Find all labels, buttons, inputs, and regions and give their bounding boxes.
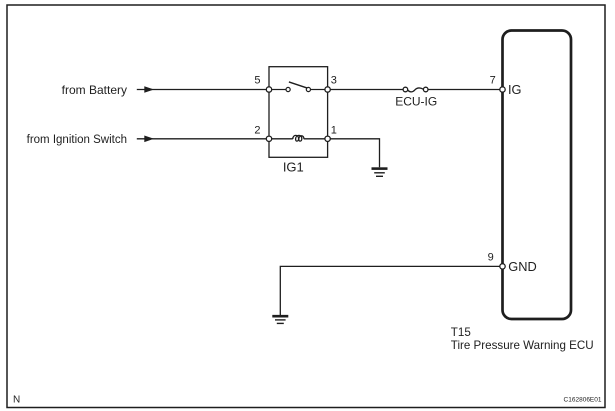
svg-text:IG: IG [508,82,522,97]
svg-text:T15: T15 [451,326,471,339]
svg-text:from Battery: from Battery [62,83,127,97]
relay pin 3 terminal [325,87,330,92]
relay pin 5 terminal [266,87,271,92]
wire: from Battery feed with arrow to relay pin 5 [137,86,266,93]
svg-text:GND: GND [508,259,536,274]
ground G1 [372,169,388,177]
relay switch contact circles (pins 5-3) [272,87,326,91]
ECU connector T15 body [503,31,572,320]
relay pin 2 terminal [266,136,271,141]
svg-text:ECU-IG: ECU-IG [395,94,437,108]
wire: relay pin 3 to fuse ECU-IG [330,89,403,91]
relay coil (pins 2-1) [272,135,326,141]
relay switch blade [289,82,307,88]
relay IG1 body [269,67,328,158]
svg-text:C162806E01: C162806E01 [564,397,602,404]
ECU pin 9 terminal [500,264,505,269]
ECU pin 7 terminal [500,87,505,92]
fuse ECU-IG [403,87,428,92]
svg-text:5: 5 [254,75,260,87]
svg-text:from Ignition Switch: from Ignition Switch [27,134,127,146]
svg-text:7: 7 [490,75,496,87]
relay pin 1 terminal [325,136,330,141]
svg-text:IG1: IG1 [283,159,304,174]
ground G2 [272,316,288,323]
svg-text:Tire Pressure Warning ECU: Tire Pressure Warning ECU [451,339,594,352]
wire: fuse to ECU pin 7 [428,89,500,91]
wire: ECU pin 9 to ground G2 [280,266,500,315]
wire: relay pin 1 to ground G1 [330,139,379,168]
svg-text:2: 2 [254,125,260,137]
svg-text:3: 3 [331,75,337,87]
wire: from Ignition Switch feed with arrow to relay pin 2 [137,136,266,143]
svg-text:1: 1 [331,125,337,137]
svg-text:9: 9 [488,252,494,264]
svg-text:N: N [13,394,20,405]
